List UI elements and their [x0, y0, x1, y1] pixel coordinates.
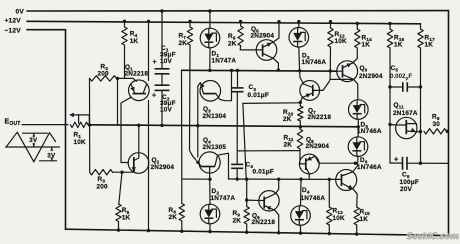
svg-text:1N746A: 1N746A [357, 164, 382, 171]
capacitor C6 [403, 157, 408, 170]
transistor Q9 [337, 61, 358, 82]
svg-text:2N1305: 2N1305 [203, 144, 227, 151]
wire R9 bottom [245, 224, 248, 234]
transistor Q7 [300, 81, 320, 101]
wire R14 top [356, 22, 359, 29]
svg-text:1N746A: 1N746A [302, 59, 327, 66]
svg-text:2K: 2K [179, 40, 188, 47]
label R13 10K [333, 208, 346, 222]
svg-text:2N2218: 2N2218 [308, 114, 332, 121]
wire R4 leads [123, 20, 126, 79]
net label -12V [5, 27, 22, 34]
wire Q3 collector to H4 [220, 69, 233, 101]
label Q6 2N2218 [252, 212, 276, 226]
wire +12V to D3 [297, 20, 300, 28]
resistor R2 [90, 76, 117, 81]
polarity + C2 [152, 93, 156, 100]
svg-text:2K: 2K [233, 217, 242, 224]
label R10 2K [283, 109, 294, 123]
wire Q7 emitter line to left column [243, 102, 300, 105]
resistor R12 [328, 28, 333, 47]
junction bus/C2 [160, 124, 163, 127]
label 3V upper with arrows [29, 134, 38, 147]
label C2 39uF 10V [160, 94, 176, 114]
wire D1 to H4 [208, 48, 211, 72]
label 3V lower with arrows [47, 148, 56, 161]
wire lower bus 179 [229, 178, 336, 180]
label D4 1N746A [301, 187, 326, 202]
transistor Q6 [259, 191, 279, 211]
label C4 0.01uF [246, 162, 274, 176]
label D1 1N747A [212, 51, 237, 65]
label R16 1K [394, 35, 405, 49]
resistor R5 [116, 204, 121, 222]
wire R17 column [419, 48, 422, 165]
resistor R13 [327, 207, 332, 225]
svg-text:2K: 2K [284, 142, 293, 149]
wire R12 node to Q9 collector path [330, 78, 352, 80]
wire 0V rail [27, 10, 449, 12]
svg-text:100μF: 100μF [400, 179, 419, 186]
svg-text:+: + [153, 59, 157, 66]
wire Eout line [22, 124, 68, 126]
wire +12V rail [27, 21, 421, 24]
label Q5 2N2904 [251, 26, 275, 40]
label Q7 2N2218 [308, 107, 332, 121]
svg-text:SeekIC.com: SeekIC.com [408, 231, 460, 241]
wire R8(30) to right border [446, 130, 449, 133]
wire Q1 right tangent down to rail [147, 101, 150, 233]
polarity + C1 [153, 59, 157, 66]
wire Q1 emitter down to Q2 base [121, 97, 131, 162]
resistor R8 [238, 26, 243, 46]
wire D3 to H4 [298, 47, 301, 72]
wire mid bus [91, 125, 359, 127]
svg-text:1N747A: 1N747A [211, 195, 236, 202]
svg-text:10K: 10K [333, 215, 346, 222]
svg-text:0.01μF: 0.01μF [248, 92, 269, 99]
label R12 10K [335, 31, 348, 45]
wire R5 bottom [117, 222, 120, 232]
wire R13 top [328, 178, 331, 207]
wire C5 leads [390, 86, 421, 88]
label Q1 2N2218 [125, 64, 149, 77]
label Q9 2N2904 [359, 65, 383, 80]
svg-text:+: + [152, 93, 156, 100]
resistor R16 [387, 29, 392, 48]
transistor Q10 [336, 170, 357, 191]
net label 0V [16, 8, 25, 15]
transistor Q5 [256, 40, 277, 61]
resistor R9 [244, 207, 249, 225]
svg-text:200: 200 [98, 71, 110, 78]
wire left column down to R9 [243, 103, 246, 179]
svg-text:3V: 3V [47, 153, 56, 160]
label C6 100uF 20V [400, 172, 419, 193]
svg-text:2N2904: 2N2904 [306, 143, 330, 150]
label C5 0.002uF [390, 65, 412, 81]
label R6 2K [169, 207, 178, 221]
wire Q5 base from R8 [240, 49, 256, 51]
wire D2 bottom to rail [208, 224, 211, 234]
svg-text:1K: 1K [394, 42, 403, 49]
wire Q7 top to H4/D3 node [300, 71, 304, 84]
wire C1 to C2 [161, 74, 163, 85]
wire R6 bottom [180, 221, 183, 233]
junction bus/Q3-Q4 [196, 124, 199, 127]
wire C2 down to bus [161, 90, 163, 125]
label Q8 2N2904 [306, 136, 330, 150]
label R3 200 [97, 176, 109, 191]
svg-text:2N167A: 2N167A [393, 110, 418, 117]
transistor Q3 [200, 81, 221, 102]
wire D6 to Q10 [353, 156, 358, 172]
svg-text:20V: 20V [400, 186, 413, 193]
wire C3/C4 tap to Q8 base [238, 150, 300, 152]
label R11 2K [284, 134, 294, 148]
transistor Q8 [299, 154, 319, 174]
label R7 2K [179, 33, 188, 47]
label R17 1K [425, 35, 436, 49]
wire base bus H4 [182, 69, 337, 72]
potentiometer wiper arrow R1 [69, 113, 89, 125]
label Q4 2N1305 [203, 137, 227, 151]
resistor R7 [187, 27, 192, 45]
label D3 1N746A [302, 52, 327, 66]
label D6 1N746A [357, 157, 382, 171]
label Q3 2N1304 [203, 106, 227, 120]
wire R15 bottom [355, 225, 358, 236]
label R1 10K [74, 132, 87, 146]
svg-text:3V: 3V [29, 137, 38, 144]
label D5 1N746A [357, 121, 382, 135]
resistor R15 [354, 207, 359, 225]
svg-text:1K: 1K [362, 42, 371, 49]
wire R11 to Q8 base [299, 149, 301, 164]
svg-text:2N1304: 2N1304 [203, 113, 227, 120]
svg-text:30: 30 [433, 121, 441, 128]
svg-text:1N746A: 1N746A [301, 195, 326, 202]
wire R9 top node [245, 178, 248, 207]
wire Q6 collector up [276, 178, 281, 194]
label R14 1K [362, 35, 373, 49]
capacitor C4 [231, 164, 243, 168]
svg-text:0.01μF: 0.01μF [253, 169, 274, 176]
svg-text:2N2218: 2N2218 [125, 70, 149, 77]
wire R17 top [420, 24, 422, 29]
svg-text:0V: 0V [16, 8, 25, 15]
wire D4 bottom [299, 225, 302, 235]
svg-text:10K: 10K [74, 139, 87, 146]
capacitor C5 [403, 82, 408, 92]
wire R16 column [388, 48, 391, 163]
wire Q11 right lead [417, 131, 421, 133]
polarity + C6 [394, 154, 399, 163]
capacitor C1 [155, 69, 170, 74]
wire R7 leads [188, 20, 191, 27]
wire H4 left drop to D2 node [182, 70, 210, 179]
wire node R2/R4 down to bus [117, 78, 119, 125]
wire R8 leads [239, 20, 242, 50]
wire C6 left lead [390, 162, 403, 164]
wire R16 top [388, 22, 391, 29]
wire D4 top [299, 178, 302, 206]
wire R13 bottom [328, 225, 331, 235]
wire Q9 emitter up to R14 [353, 48, 358, 63]
label R8 2K [228, 33, 237, 47]
label R8 30 [432, 113, 440, 128]
label R2 200 [98, 64, 110, 78]
label R15 1K [360, 209, 371, 223]
wire -12V rail [27, 29, 66, 31]
wire R7 column down to Q4 emitter [190, 45, 193, 156]
capacitor C3 [232, 88, 244, 92]
svg-text:2K: 2K [169, 214, 178, 221]
wire Q4 bottom to D2 [208, 167, 211, 205]
svg-text:10V: 10V [160, 58, 173, 65]
resistor R11 [297, 129, 302, 149]
svg-text:2K: 2K [283, 116, 292, 123]
wire column R2-R1-R3 [89, 78, 91, 172]
label D2 1N747A [211, 188, 236, 202]
resistor R17 [418, 29, 423, 48]
svg-text:1K: 1K [122, 214, 131, 221]
wire C4 down to 179-line [236, 168, 239, 181]
svg-text:1N747A: 1N747A [212, 57, 237, 64]
label C1 39uF 10V [160, 45, 176, 65]
diode D6 [348, 137, 368, 157]
wire Q5 emitter to +12V [273, 20, 281, 42]
svg-text:2K: 2K [228, 40, 237, 47]
net label +12V [5, 17, 22, 24]
svg-text:+12V: +12V [5, 17, 22, 24]
diode D1 [200, 28, 220, 48]
transistor Q11 [396, 117, 417, 138]
diode D5 [349, 100, 369, 120]
wire Q7 base to R12 node [319, 81, 329, 91]
wire bottom rail [66, 229, 449, 235]
resistor R8 (30) [424, 129, 447, 134]
svg-text:−12V: −12V [5, 27, 22, 34]
label Q2 2N2904 [151, 157, 175, 171]
svg-text:0.002μF: 0.002μF [390, 73, 412, 81]
watermark SeekIC.com [406, 231, 460, 242]
wire R2 to Q1 base [116, 77, 137, 82]
wire R5 top [119, 172, 122, 204]
wire -12V vertical drop [65, 30, 67, 230]
wire Q9 collector to D5 [354, 79, 358, 100]
wire H4 to C3 [236, 69, 239, 88]
transistor Q1 [129, 80, 150, 101]
wire R10 leads [299, 102, 302, 128]
svg-text:2N2218: 2N2218 [252, 219, 276, 226]
svg-text:10K: 10K [335, 38, 348, 45]
svg-text:1K: 1K [425, 42, 434, 49]
wire R3 right to R5 node [113, 171, 134, 174]
wire Q7 emitter to R10 node [299, 98, 303, 105]
waveform triangle wave icon [6, 132, 60, 162]
wire Q6 base line [247, 199, 260, 201]
svg-text:2N2904: 2N2904 [151, 164, 175, 171]
wire Q6 emitter down [275, 211, 280, 235]
wire Q5 collector to H4 [273, 58, 280, 72]
diode D4 [291, 206, 311, 226]
label Q11 2N167A [393, 102, 418, 117]
resistor R1 [71, 122, 89, 127]
wire Q10 emitter to R15 [353, 189, 357, 207]
svg-text:1N746A: 1N746A [357, 128, 382, 135]
resistor R3 [90, 170, 113, 175]
svg-text:2N2904: 2N2904 [359, 73, 383, 80]
label C3 0.01uF [248, 84, 269, 99]
resistor R14 [355, 29, 360, 48]
svg-text:2N2904: 2N2904 [251, 33, 275, 40]
transistor Q4 [193, 152, 229, 179]
svg-text:1K: 1K [360, 216, 369, 223]
wire R12 leads [329, 20, 333, 79]
resistor R10 [298, 106, 303, 121]
svg-text:1K: 1K [130, 38, 139, 45]
wire R6 top column [181, 179, 183, 204]
label R9 2K [233, 210, 242, 224]
wire Q8 collector to D6/Q10 node [319, 162, 357, 165]
wire right border [448, 11, 450, 236]
diode D3 [289, 28, 309, 48]
svg-text:+: + [394, 154, 399, 163]
wire 0V to C1 [160, 9, 164, 68]
wire C3 to C4 column [236, 92, 238, 165]
wire D5 to D6 [357, 119, 360, 137]
wire C6 right lead [407, 162, 449, 164]
resistor R4 [122, 27, 127, 45]
diode D2 [200, 204, 220, 224]
node Eout label [5, 119, 21, 128]
resistor R6 [179, 204, 184, 222]
wire R1 right to R2/R3 column [88, 123, 91, 126]
wire 0V to D1 [208, 9, 212, 28]
svg-text:200: 200 [97, 183, 109, 190]
wire Q11 left lead [390, 124, 396, 127]
wire Q3 emitter down to bus and Q4 arrow zone [198, 83, 201, 157]
wire Q2 collector to bus [137, 124, 140, 153]
wire Q1 collector to +12V [147, 20, 150, 81]
wire Q8 emitter to 179-line [308, 174, 310, 180]
capacitor C2 [155, 85, 170, 90]
transistor Q2 [128, 153, 149, 174]
label R4 1K [130, 31, 139, 45]
label R5 1K [122, 207, 131, 221]
